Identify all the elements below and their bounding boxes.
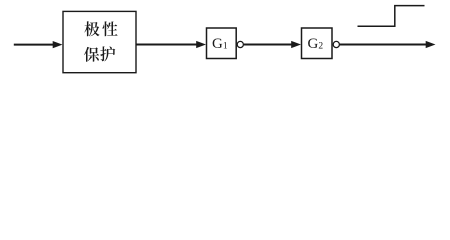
inversion bubble at G2 output: [333, 41, 339, 47]
gate G1 box: [207, 28, 237, 59]
gate G2 box: [302, 28, 333, 59]
output arrowhead: [426, 41, 436, 48]
block label char 性 (line 1): [102, 21, 117, 36]
wire block to G1: [136, 44, 198, 46]
block label char 护 (line 2): [100, 46, 115, 61]
step waveform symbol: [358, 6, 425, 27]
block: polarity-protection box: [63, 11, 136, 72]
inversion bubble at G1 output: [237, 41, 243, 47]
wire G1 to G2: [244, 44, 292, 46]
arrowhead into G2: [291, 41, 301, 48]
arrowhead into G1: [196, 41, 206, 48]
input wire: [14, 44, 55, 46]
output wire: [340, 44, 427, 46]
input arrowhead: [53, 41, 63, 48]
svg-text:G1: G1: [212, 36, 228, 52]
svg-text:G2: G2: [308, 36, 324, 52]
block label char 极 (line 1): [84, 21, 99, 36]
block label char 保 (line 2): [84, 47, 99, 62]
